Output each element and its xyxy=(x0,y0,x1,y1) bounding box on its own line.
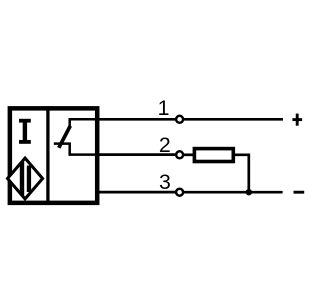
svg-text:3: 3 xyxy=(159,170,171,194)
svg-text:2: 2 xyxy=(159,133,171,157)
svg-text:1: 1 xyxy=(158,96,170,120)
